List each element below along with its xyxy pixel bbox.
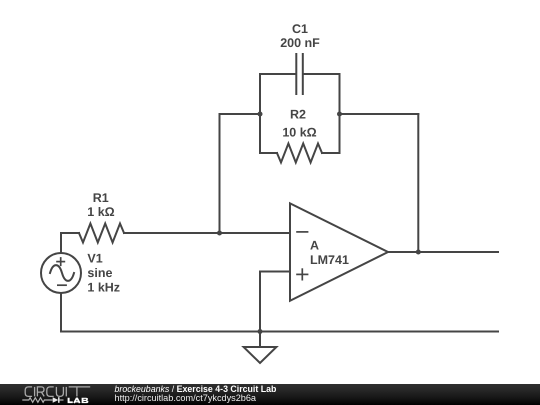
wire V1 top lead	[61, 233, 79, 253]
footer caption line 2	[115, 394, 257, 403]
wire R1 to op-amp inverting input	[124, 232, 290, 234]
wire output	[388, 251, 498, 253]
wire bottom rail	[61, 331, 498, 333]
svg-text:C1: C1	[292, 22, 308, 36]
voltage source V1 circle	[41, 253, 81, 293]
node dot R1/feedback junction	[217, 231, 222, 236]
op-amp plus symbol	[296, 273, 308, 275]
logo diode glyph	[53, 397, 59, 403]
svg-text:A: A	[310, 239, 319, 253]
wire feedback left vertical	[220, 114, 261, 233]
footer bar	[0, 384, 540, 405]
logo letter R	[37, 387, 44, 397]
svg-text:R2: R2	[290, 108, 306, 122]
capacitor C1 right lead	[304, 73, 340, 75]
svg-text:10 kΩ: 10 kΩ	[282, 126, 316, 140]
logo letter T	[69, 387, 91, 397]
resistor R1	[79, 224, 124, 243]
svg-text:V1: V1	[87, 251, 102, 265]
footer caption line 1	[115, 385, 277, 394]
node dot output junction	[416, 250, 421, 255]
capacitor C1 left lead	[260, 73, 295, 75]
resistor R2 left lead	[260, 152, 277, 154]
svg-text:1 kΩ: 1 kΩ	[87, 205, 114, 219]
logo letter C	[47, 387, 54, 397]
logo LAB letter A	[74, 398, 80, 403]
wire parallel box right vertical	[339, 74, 341, 153]
op-amp U1 triangle	[290, 203, 388, 300]
logo LAB letter B	[82, 398, 89, 403]
wire V1 bottom lead	[60, 293, 62, 332]
capacitor C1 plates	[295, 54, 297, 94]
logo letter C	[25, 387, 32, 397]
logo letter I	[65, 387, 67, 397]
logo resistor glyph	[22, 398, 52, 403]
logo LAB letter L	[68, 398, 73, 403]
node dot box left	[258, 112, 263, 117]
V1 sine wave	[50, 265, 74, 281]
logo letter I	[34, 387, 36, 397]
node dot ground junction	[258, 329, 263, 334]
svg-text:LM741: LM741	[310, 253, 349, 267]
op-amp minus symbol	[296, 231, 308, 233]
wire feedback right horizontal	[340, 113, 419, 115]
svg-text:200 nF: 200 nF	[280, 36, 320, 50]
ground	[244, 347, 277, 363]
V1 minus symbol	[57, 284, 67, 286]
svg-text:sine: sine	[87, 266, 112, 280]
logo letter U	[56, 387, 63, 397]
V1 plus symbol	[56, 261, 65, 263]
wire feedback to output vertical	[417, 114, 419, 252]
resistor R2	[277, 144, 322, 163]
resistor R2 right lead	[322, 152, 340, 154]
svg-text:R1: R1	[93, 191, 109, 205]
ground stub	[259, 332, 261, 348]
svg-text:1 kHz: 1 kHz	[87, 280, 120, 294]
wire parallel box left vertical	[259, 74, 261, 153]
node dot box right	[337, 112, 342, 117]
wire non-inverting input	[260, 272, 290, 332]
